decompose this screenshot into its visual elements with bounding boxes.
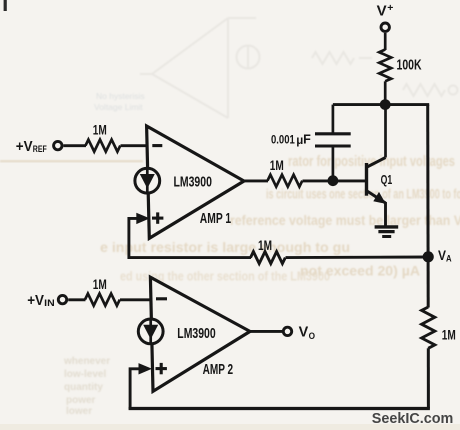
transistor Q1 (367, 105, 386, 226)
wire VIN to R6 (68, 298, 85, 301)
svg-text:V: V (299, 325, 309, 341)
terminal +VREF (16, 139, 62, 155)
svg-text:1M: 1M (93, 122, 107, 138)
ghost schematic bleed-through (top-left) (140, 18, 458, 118)
resistor R5 1M (rail, vertical) (422, 307, 435, 348)
svg-text:rator for positive input volta: rator for positive input voltages (288, 153, 455, 170)
wire rail lower (427, 348, 430, 408)
terminal +VIN (27, 293, 66, 309)
svg-text:+: + (387, 2, 393, 14)
node VA (423, 251, 434, 262)
plus sign AMP2 (156, 363, 167, 374)
svg-text:lower: lower (66, 406, 92, 417)
svg-text:IN: IN (44, 298, 55, 309)
minus sign AMP1 (152, 144, 162, 147)
op-amp U2 AMP2 triangle (150, 277, 250, 391)
svg-text:0.001: 0.001 (271, 133, 295, 147)
wire right rail (426, 105, 430, 308)
wire VREF to R1 (64, 144, 87, 147)
svg-text:is circuit uses one section of: is circuit uses one section of an LM3900… (266, 186, 460, 202)
svg-text:power: power (66, 395, 96, 406)
svg-text:AMP 1: AMP 1 (200, 211, 231, 227)
current source symbol AMP2 (138, 319, 163, 344)
svg-text:e input resistor is large enou: e input resistor is large enough to gu (100, 239, 350, 255)
wire AMP2 out to VO (249, 330, 283, 333)
svg-text:reference voltage must be larg: reference voltage must be larger than V (230, 212, 460, 228)
resistor R4 1M (feedback) (251, 252, 286, 264)
emitter arrowhead Q1 (373, 192, 386, 204)
terminal VO (283, 325, 315, 342)
arrowhead into AMP1 plus (136, 213, 150, 224)
svg-text:+V: +V (16, 139, 33, 155)
svg-text:LM3900: LM3900 (174, 173, 212, 190)
node V+/collector (380, 99, 391, 110)
resistor R6 1M (VIN input) (85, 294, 120, 306)
svg-text:Voltage Limit: Voltage Limit (94, 102, 143, 112)
resistor R3 100K (vertical) (379, 50, 391, 82)
wire R6 to AMP2 minus (120, 298, 153, 301)
arrowhead into AMP2 plus (139, 363, 153, 374)
svg-text:A: A (446, 254, 452, 265)
plus sign AMP1 (152, 212, 163, 223)
ghost box bleed-through (bottom-left) (63, 356, 110, 417)
resistor R1 1M (VREF input) (86, 140, 121, 152)
minus sign AMP2 (156, 297, 167, 300)
wire AMP2 plus feedback (130, 369, 139, 410)
wire R1 to AMP1 minus (121, 144, 149, 147)
svg-text:F: F (303, 133, 311, 147)
svg-text:AMP 2: AMP 2 (203, 362, 234, 378)
svg-text:quantity: quantity (64, 382, 103, 393)
wire AMP1 out to R2 (243, 179, 268, 182)
svg-text:REF: REF (33, 144, 47, 155)
wire bottom rail (129, 407, 430, 410)
wire R2 to Q1 base (303, 179, 366, 182)
node junction cap/base (328, 175, 339, 186)
svg-text:whenever: whenever (63, 356, 110, 367)
resistor R2 1M (AMP1 output) (268, 175, 303, 187)
wire R3 to node (384, 81, 387, 104)
bleed-through paragraph (tan) (100, 153, 460, 284)
op-amp U1 AMP1 triangle (147, 126, 244, 238)
faint tan rule left of AMP1 (0, 160, 143, 162)
label VA (438, 247, 452, 265)
svg-text:1M: 1M (258, 238, 272, 254)
svg-text:100K: 100K (397, 58, 422, 74)
svg-text:LM3900: LM3900 (177, 325, 215, 342)
svg-text:V: V (377, 3, 387, 20)
capacitor C1 0.001uF (315, 105, 351, 181)
svg-text:Q1: Q1 (381, 172, 393, 187)
svg-text:1M: 1M (270, 158, 284, 174)
wire top rail (333, 103, 429, 106)
svg-text:No hysterisis: No hysterisis (96, 91, 145, 101)
svg-text:O: O (309, 331, 315, 342)
wire V+ to R3 (384, 33, 387, 50)
svg-text:low-level: low-level (64, 369, 106, 380)
svg-text:SeekIC.com: SeekIC.com (372, 410, 454, 427)
current source symbol AMP1 (135, 168, 160, 193)
wire AMP1 plus feedback (129, 218, 251, 257)
wire R4 to VA (286, 256, 429, 260)
ghost text "No hysterisis / Voltage Limit" (94, 91, 145, 112)
svg-text:+V: +V (27, 293, 44, 309)
svg-text:1M: 1M (93, 277, 107, 293)
label 0.001uF (271, 133, 311, 148)
ground (Q1 emitter) (375, 227, 399, 237)
terminal V+ (377, 2, 394, 32)
svg-text:1M: 1M (442, 328, 456, 344)
scan mark top-left corner (4, 0, 7, 11)
